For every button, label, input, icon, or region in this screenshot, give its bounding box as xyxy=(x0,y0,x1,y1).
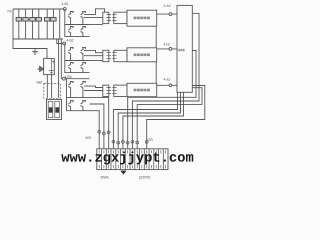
svg-text:4-b2: 4-b2 xyxy=(164,43,171,47)
svg-text:(220V): (220V) xyxy=(139,176,151,180)
svg-text:4-B3: 4-B3 xyxy=(65,75,72,79)
svg-text:OR: OR xyxy=(148,138,154,142)
svg-text:4-B2: 4-B2 xyxy=(67,39,74,43)
svg-text:4-A2: 4-A2 xyxy=(164,4,171,8)
svg-text:4-a1: 4-a1 xyxy=(164,78,171,82)
svg-text:DW1: DW1 xyxy=(101,176,109,180)
svg-text:PE: PE xyxy=(8,10,12,14)
svg-text:GB: GB xyxy=(36,81,42,85)
svg-text:4-B1: 4-B1 xyxy=(62,2,69,6)
svg-text:MS: MS xyxy=(86,136,92,140)
